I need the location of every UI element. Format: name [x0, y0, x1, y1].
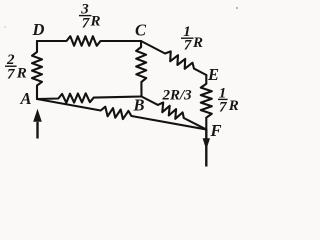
svg-text:F: F — [210, 121, 222, 140]
svg-text:E: E — [207, 65, 219, 84]
svg-text:2R/3: 2R/3 — [162, 87, 193, 103]
svg-text:B: B — [133, 96, 145, 115]
svg-text:C: C — [135, 21, 147, 40]
svg-text:R: R — [192, 35, 203, 51]
svg-text:7: 7 — [82, 15, 90, 31]
svg-text:7: 7 — [219, 99, 227, 115]
svg-text:R: R — [16, 66, 27, 82]
svg-text:R: R — [228, 98, 239, 114]
svg-text:D: D — [32, 20, 45, 39]
svg-text:7: 7 — [7, 66, 15, 82]
svg-text:7: 7 — [184, 37, 192, 53]
svg-text:A: A — [20, 89, 32, 108]
